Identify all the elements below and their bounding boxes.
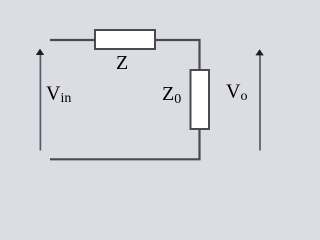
wire: bottom return [50, 129, 200, 159]
resistor Z (series impedance) [95, 30, 155, 49]
arrow: Vo arrowhead [255, 49, 263, 55]
svg-text:Vo: Vo [226, 81, 247, 105]
resistor Z0 (load impedance) [191, 70, 210, 129]
svg-text:Vin: Vin [46, 83, 71, 107]
arrow: Vin arrowhead [36, 49, 44, 55]
wire: Z to Z0 with corner [155, 40, 200, 70]
arrow: Vin voltage indicator shaft [39, 54, 41, 151]
svg-text:Z0: Z0 [162, 83, 181, 107]
arrow: Vo voltage indicator shaft [259, 55, 261, 151]
wire: input top segment [50, 39, 95, 41]
svg-text:Z: Z [116, 52, 128, 74]
